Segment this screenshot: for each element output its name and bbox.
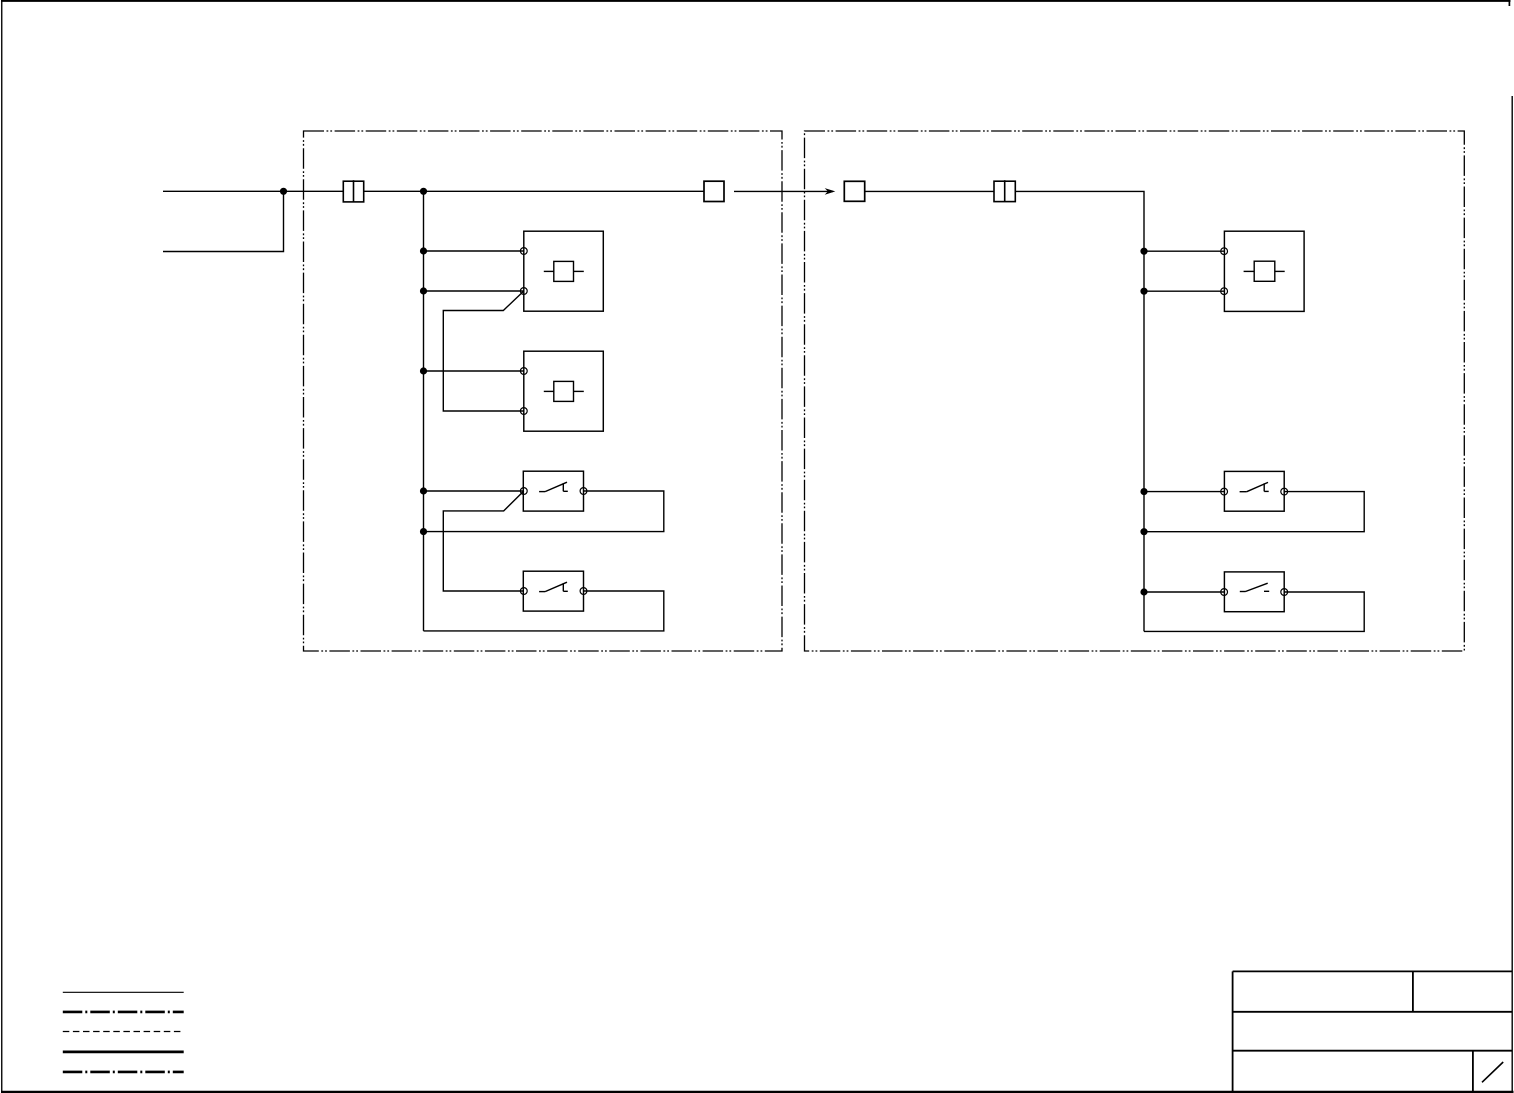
node S1 return tap <box>420 529 426 535</box>
coil element K1 <box>544 261 584 281</box>
node feeder junction <box>280 188 286 194</box>
page border top <box>1 0 1511 2</box>
wire S1 pin1 link to S2 pin1 <box>443 491 524 591</box>
wire feeder lower stub <box>163 191 284 251</box>
arrowhead <box>825 188 836 195</box>
pin S2-2 <box>580 588 587 595</box>
node S3 return tap <box>1141 529 1147 535</box>
pin S4-2 <box>1281 589 1288 596</box>
wire S2 return <box>424 591 664 631</box>
node S4 tap <box>1141 589 1147 595</box>
switch box S3 <box>1224 471 1284 511</box>
title block slash <box>1482 1062 1503 1082</box>
relay box K2 <box>524 351 604 431</box>
node K3 pin2 tap <box>1141 288 1147 294</box>
wire X3 to X4 <box>865 190 994 192</box>
connector X4 <box>994 180 1015 201</box>
page border top right tick <box>1508 0 1510 6</box>
wire to K2 pin1 <box>424 370 524 372</box>
contact S3 <box>1240 482 1269 491</box>
pin K2-2 <box>520 408 527 415</box>
node bus1 tap <box>420 188 426 194</box>
node K1 pin2 tap <box>420 288 426 294</box>
contact S2 <box>539 582 568 591</box>
switch box S4 <box>1224 572 1284 612</box>
pin K3-2 <box>1221 288 1228 295</box>
page border bottom <box>1 1091 1514 1093</box>
wire to S1 pin1 <box>424 490 524 492</box>
wire S4 return <box>1144 592 1364 631</box>
pin S2-1 <box>520 588 527 595</box>
terminal box X2 <box>704 181 724 201</box>
enclosure 2 boundary (dash-dot-dot) <box>805 131 1465 651</box>
pin K1-2 <box>520 288 527 295</box>
wire to S3 pin1 <box>1144 491 1224 493</box>
wire to K3 pin1 <box>1144 250 1224 252</box>
pin K3-1 <box>1221 248 1228 255</box>
node S1 tap <box>420 488 426 494</box>
title block outline <box>1233 971 1513 1091</box>
pin S1-1 <box>520 488 527 495</box>
contact S4 <box>1240 583 1269 591</box>
pin S4-1 <box>1221 589 1228 596</box>
wire X1 to X2 <box>364 190 704 192</box>
page border left <box>1 0 3 1093</box>
wire feeder top <box>163 190 343 192</box>
wire K1 pin2 link to K2 pin2 <box>443 291 524 411</box>
legend line dash-dot thick 2 <box>63 1071 184 1074</box>
legend line dash-dot thick <box>63 1011 184 1014</box>
enclosure 1 boundary (dash-dot-dot) <box>304 131 783 651</box>
wire to S4 pin1 <box>1144 591 1224 593</box>
legend line solid thick <box>63 1051 184 1054</box>
page border right <box>1511 96 1513 1091</box>
switch box S1 <box>523 471 583 511</box>
connector X1 <box>343 180 363 202</box>
relay box K1 <box>524 231 604 311</box>
node K2 pin1 tap <box>420 368 426 374</box>
pin K2-1 <box>520 368 527 375</box>
pin S3-1 <box>1221 488 1228 495</box>
legend line solid thin <box>63 991 184 993</box>
relay box K3 <box>1224 231 1304 311</box>
switch box S2 <box>523 571 583 611</box>
pin S1-2 <box>580 488 587 495</box>
wire to K1 pin1 <box>424 250 524 252</box>
wire S1 return <box>424 491 664 532</box>
node S3 tap <box>1141 489 1147 495</box>
wire inter-enclosure <box>734 190 833 192</box>
terminal box X3 <box>844 181 864 201</box>
legend line dashed thin <box>63 1031 184 1033</box>
wire bus 1 vertical <box>423 191 425 631</box>
wire S3 return <box>1144 492 1364 532</box>
wire to K1 pin2 <box>424 290 524 292</box>
contact S1 <box>539 482 568 491</box>
coil element K3 <box>1244 261 1285 281</box>
wire X4 to bus 2 <box>1015 191 1144 631</box>
pin K1-1 <box>520 248 527 255</box>
node K1 pin1 tap <box>420 248 426 254</box>
node K3 pin1 tap <box>1141 248 1147 254</box>
wire to K3 pin2 <box>1144 290 1224 292</box>
coil element K2 <box>544 381 584 401</box>
pin S3-2 <box>1281 488 1288 495</box>
